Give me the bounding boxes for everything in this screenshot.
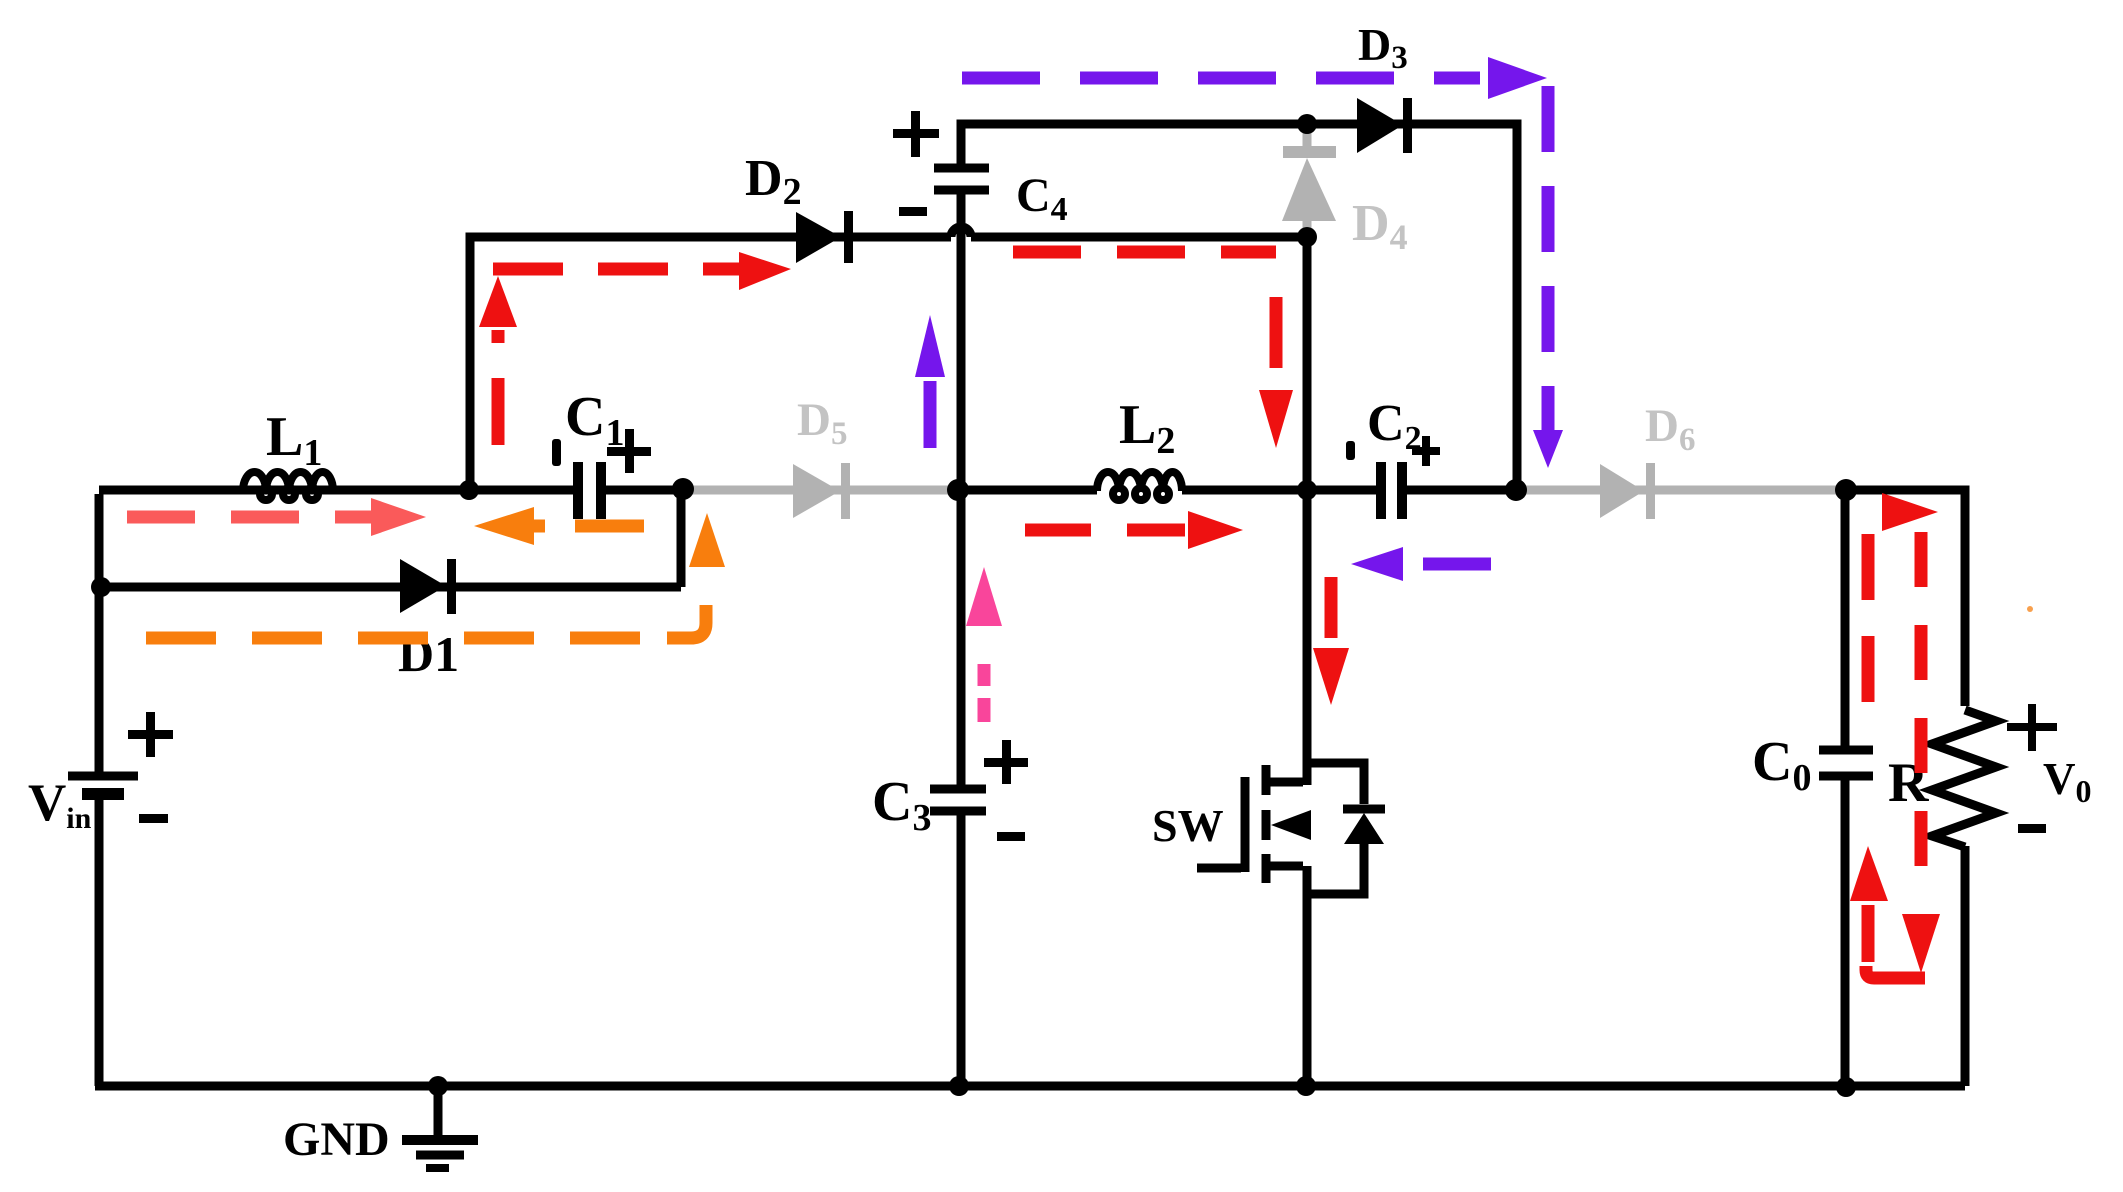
svg-text:SW: SW <box>1152 800 1224 851</box>
svg-text:GND: GND <box>283 1113 390 1166</box>
